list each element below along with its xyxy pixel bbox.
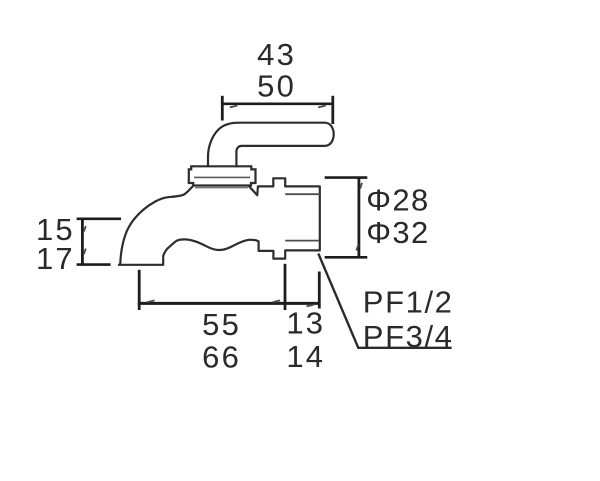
svg-text:13: 13 bbox=[286, 306, 325, 341]
svg-text:50: 50 bbox=[257, 69, 296, 104]
svg-text:66: 66 bbox=[202, 339, 241, 374]
bonnet facet line bbox=[194, 176, 250, 178]
oblique tick 17 bbox=[84, 249, 86, 255]
oblique tick 66 bbox=[273, 300, 281, 302]
svg-text:Φ28: Φ28 bbox=[366, 183, 429, 218]
dim 43/50 line bbox=[222, 103, 332, 106]
dim mid tick bbox=[284, 264, 287, 310]
oblique tick 15 bbox=[84, 226, 86, 232]
svg-text:43: 43 bbox=[257, 37, 296, 72]
oblique tick phi32 bbox=[356, 245, 358, 251]
svg-text:PF1/2: PF1/2 bbox=[363, 285, 454, 320]
dim phi vertical line bbox=[357, 178, 360, 258]
thread root line bottom bbox=[285, 240, 319, 242]
oblique tick 43 right bbox=[318, 106, 326, 108]
faucet body outline bbox=[119, 178, 320, 264]
dim 15/17 top bar bbox=[77, 218, 121, 221]
svg-text:55: 55 bbox=[202, 307, 241, 342]
oblique tick 55 bbox=[147, 300, 155, 302]
dim 15/17 vertical line bbox=[81, 219, 84, 266]
oblique tick 13 bbox=[307, 305, 315, 307]
body shoulder line under nut bbox=[195, 187, 248, 189]
svg-text:14: 14 bbox=[286, 339, 325, 374]
oblique tick phi28 bbox=[360, 183, 362, 189]
dim right tick bbox=[318, 272, 321, 309]
svg-text:17: 17 bbox=[36, 241, 75, 276]
oblique tick 43 left bbox=[230, 106, 238, 108]
dim 43/50 right tick bbox=[331, 96, 334, 124]
dim phi bottom bar bbox=[325, 256, 368, 259]
dim left tick bbox=[138, 270, 141, 310]
dim 15/17 bottom bar bbox=[77, 263, 111, 266]
bonnet nut bbox=[189, 166, 256, 185]
leader line to PF labels bbox=[318, 254, 451, 348]
dim phi top bar bbox=[325, 176, 368, 179]
thread root line top bbox=[285, 193, 320, 195]
svg-text:PF3/4: PF3/4 bbox=[363, 319, 454, 354]
dim 43/50 left tick bbox=[221, 96, 224, 121]
dim 55/66/13/14 line bbox=[138, 302, 321, 305]
svg-text:Φ32: Φ32 bbox=[366, 215, 429, 250]
handle lever bbox=[208, 123, 334, 167]
